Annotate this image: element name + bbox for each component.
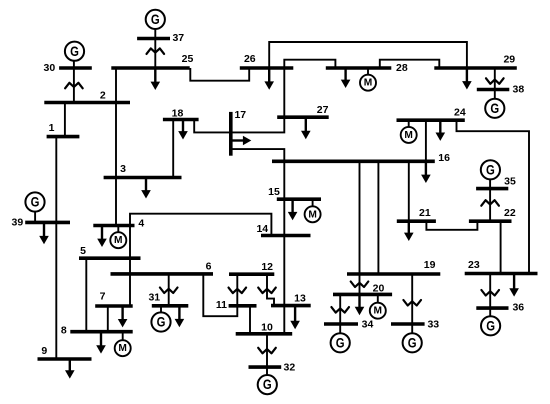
bus 8 bbox=[70, 330, 132, 334]
svg-text:1: 1 bbox=[49, 122, 55, 134]
transformer symbol 23-36 bbox=[481, 290, 499, 296]
svg-text:33: 33 bbox=[427, 318, 439, 330]
svg-text:30: 30 bbox=[44, 62, 56, 74]
load arrow bus 27 bbox=[301, 117, 311, 139]
bus 12 bbox=[229, 272, 274, 276]
bus 29 bbox=[434, 66, 517, 70]
bus 20 bbox=[333, 293, 392, 297]
load arrow bus 39 bbox=[39, 222, 49, 244]
bus 27 bbox=[277, 115, 329, 119]
bus 26 bbox=[240, 66, 293, 70]
load arrow bus 20 bbox=[355, 294, 365, 315]
svg-text:14: 14 bbox=[256, 223, 268, 235]
load arrow bus 13 bbox=[290, 306, 300, 330]
svg-text:G: G bbox=[408, 335, 417, 351]
wire motor 20 stub bbox=[377, 294, 379, 302]
svg-text:13: 13 bbox=[294, 293, 306, 305]
wire line 26-29 top bbox=[269, 42, 467, 68]
bus 24 bbox=[397, 118, 465, 122]
svg-text:36: 36 bbox=[512, 302, 524, 314]
bus 37 bbox=[137, 37, 170, 41]
bus 4 bbox=[93, 224, 134, 228]
svg-text:16: 16 bbox=[438, 152, 450, 164]
svg-text:6: 6 bbox=[206, 261, 212, 273]
generator G at bus 38 bbox=[485, 99, 504, 118]
wire transformer 19-33 with generator stub bbox=[411, 274, 413, 333]
svg-text:G: G bbox=[486, 318, 495, 334]
load arrow bus 8 bbox=[96, 332, 106, 354]
generator G at bus 30 bbox=[65, 42, 84, 61]
svg-text:26: 26 bbox=[244, 53, 256, 65]
svg-text:10: 10 bbox=[261, 321, 273, 333]
wire line 3-18 bbox=[172, 120, 174, 178]
load arrow bus 17 bbox=[231, 136, 252, 146]
wire lines 2-3, 3-4 bbox=[115, 103, 117, 226]
svg-text:11: 11 bbox=[216, 299, 227, 311]
wire motor 28 stub bbox=[367, 68, 369, 75]
bus 6 bbox=[111, 272, 214, 276]
wire lines 6-11, 11-12 transformer bbox=[203, 274, 237, 316]
bus 22 bbox=[469, 219, 512, 223]
load arrow bus 9 bbox=[65, 359, 75, 379]
generator G at bus 34 bbox=[331, 333, 350, 352]
load arrow bus 28 bbox=[341, 68, 351, 88]
svg-text:39: 39 bbox=[12, 216, 24, 228]
wire line 10-11 bbox=[249, 306, 251, 334]
bus 7 bbox=[95, 304, 133, 308]
bus 21 bbox=[397, 219, 436, 223]
bus 3 bbox=[104, 176, 182, 180]
svg-text:28: 28 bbox=[396, 62, 408, 74]
bus 28 bbox=[326, 66, 392, 70]
wire line 24-23 bbox=[457, 120, 530, 273]
transformer symbol 12-13 bbox=[258, 288, 276, 294]
svg-text:G: G bbox=[157, 315, 166, 331]
bus 23 bbox=[465, 272, 538, 276]
wire transformer 37-25 with generator stub bbox=[154, 29, 156, 68]
svg-text:22: 22 bbox=[504, 207, 516, 219]
load arrow bus 7 bbox=[118, 306, 128, 327]
transformer symbol 37-25 bbox=[147, 48, 165, 54]
bus 13 bbox=[271, 304, 311, 308]
bus 33 bbox=[391, 322, 425, 326]
bus 11 bbox=[229, 304, 257, 308]
svg-text:G: G bbox=[336, 335, 345, 351]
bus 17 bbox=[229, 112, 233, 156]
wire generator 39 stub bbox=[34, 212, 36, 223]
generator G at bus 37 bbox=[146, 10, 165, 29]
svg-text:2: 2 bbox=[100, 90, 106, 102]
svg-text:M: M bbox=[114, 235, 123, 246]
wire line 16-24 bbox=[425, 120, 427, 161]
svg-text:G: G bbox=[263, 377, 272, 393]
wire transformer 30-2 with generator stub bbox=[73, 60, 75, 102]
svg-text:9: 9 bbox=[41, 345, 47, 357]
wire line 16-19 left circuit bbox=[359, 161, 361, 274]
motor M at bus 20 bbox=[370, 303, 386, 319]
load arrow bus 16 bbox=[421, 161, 431, 183]
generator G at bus 33 bbox=[403, 333, 422, 352]
wire line 16-21 bbox=[408, 161, 410, 221]
svg-text:12: 12 bbox=[261, 261, 273, 273]
wire transformer 19-20 bbox=[359, 274, 361, 294]
svg-text:37: 37 bbox=[172, 32, 184, 44]
svg-text:G: G bbox=[490, 101, 499, 117]
svg-text:3: 3 bbox=[120, 163, 126, 175]
svg-text:25: 25 bbox=[182, 53, 194, 65]
svg-text:17: 17 bbox=[234, 109, 246, 121]
svg-text:19: 19 bbox=[424, 259, 436, 271]
wire line 28-29 bbox=[380, 60, 440, 68]
bus 2 bbox=[44, 101, 130, 105]
load arrow bus 18 bbox=[178, 120, 188, 140]
svg-text:7: 7 bbox=[100, 291, 106, 303]
wire lines 16-17, 15-16, 14-15, 13-14, 10-13 bbox=[231, 149, 284, 334]
transformer symbol 19-20 bbox=[351, 282, 369, 288]
bus 31 bbox=[152, 304, 189, 308]
svg-text:4: 4 bbox=[138, 218, 144, 230]
svg-text:G: G bbox=[31, 195, 40, 211]
wire transformer 29-38 with generator stub bbox=[494, 68, 496, 99]
bus 10 bbox=[236, 332, 293, 336]
wire motor 4 stub bbox=[117, 226, 119, 233]
transformer symbol 11-12 bbox=[229, 288, 247, 294]
bus 36 bbox=[476, 306, 508, 310]
bus 39 bbox=[25, 221, 70, 225]
bus 19 bbox=[347, 272, 440, 276]
svg-text:31: 31 bbox=[148, 292, 160, 304]
wire transformer 23-36 with generator stub bbox=[489, 274, 491, 317]
svg-text:5: 5 bbox=[80, 245, 86, 257]
svg-text:M: M bbox=[404, 130, 413, 141]
bus 38 bbox=[477, 88, 510, 92]
svg-text:24: 24 bbox=[454, 106, 466, 118]
generator G at bus 31 bbox=[151, 312, 170, 331]
wire transformer 20-34 with generator stub bbox=[339, 294, 341, 333]
transformer symbol 10-32 bbox=[258, 348, 276, 354]
svg-text:23: 23 bbox=[468, 259, 480, 271]
wire line 2-25 bbox=[115, 68, 117, 103]
load arrow bus 25 bbox=[151, 68, 161, 90]
wire motor 24 stub bbox=[408, 120, 410, 127]
motor M at bus 28 bbox=[360, 75, 376, 91]
transformer symbol 29-38 bbox=[486, 78, 504, 84]
wire line 22-23 bbox=[500, 221, 502, 273]
wire motor 8 stub bbox=[122, 332, 124, 341]
bus 14 bbox=[261, 234, 311, 238]
bus 1 bbox=[47, 135, 80, 139]
svg-text:27: 27 bbox=[317, 104, 329, 116]
wire generator 31 stub bbox=[160, 306, 162, 313]
svg-text:15: 15 bbox=[268, 186, 280, 198]
generator G at bus 39 bbox=[25, 192, 44, 211]
generator G at bus 35 bbox=[481, 160, 500, 179]
load arrow bus 3 bbox=[141, 178, 151, 199]
bus 16 bbox=[272, 160, 435, 164]
bus 30 bbox=[59, 66, 92, 70]
svg-text:M: M bbox=[118, 343, 127, 354]
wire transformer 22-35 with generator stub bbox=[489, 179, 491, 221]
generator G at bus 36 bbox=[481, 316, 500, 335]
bus 5 bbox=[79, 256, 141, 260]
load arrow bus 4 bbox=[97, 226, 107, 248]
wire transformer 10-32 with generator stub bbox=[266, 334, 268, 376]
wire transformer 12-13 bbox=[267, 274, 274, 305]
wire motor 15 stub bbox=[312, 199, 314, 206]
bus 15 bbox=[277, 197, 321, 201]
svg-text:G: G bbox=[486, 162, 495, 178]
bus 18 bbox=[163, 118, 199, 122]
svg-text:32: 32 bbox=[284, 361, 296, 373]
transformer symbol 19-33 bbox=[403, 300, 421, 306]
svg-text:38: 38 bbox=[513, 83, 525, 95]
wire lines 18-17, 17-27, 26-27, 26-28 bbox=[194, 60, 335, 133]
wire line 5-8 bbox=[85, 258, 87, 332]
wire lines 1-39, 39-9 bbox=[55, 137, 57, 359]
wire transformer 6-31 bbox=[168, 274, 170, 306]
bus 35 bbox=[476, 187, 508, 191]
svg-text:M: M bbox=[364, 78, 373, 89]
motor M at bus 15 bbox=[305, 206, 321, 222]
load arrow bus 23 bbox=[509, 274, 519, 297]
svg-text:G: G bbox=[151, 12, 160, 28]
load arrow bus 15 bbox=[288, 199, 298, 220]
wire line 1-2 bbox=[64, 103, 66, 137]
generator G at bus 32 bbox=[258, 375, 277, 394]
svg-text:G: G bbox=[70, 44, 79, 60]
motor M at bus 24 bbox=[401, 127, 417, 143]
load arrow bus 31 bbox=[175, 306, 185, 328]
bus 32 bbox=[249, 365, 282, 369]
transformer symbol 20-34 bbox=[331, 307, 349, 313]
bus 9 bbox=[38, 357, 92, 361]
load arrow bus 29 bbox=[462, 68, 472, 90]
svg-text:8: 8 bbox=[61, 324, 67, 336]
motor M at bus 4 bbox=[110, 232, 126, 248]
svg-text:29: 29 bbox=[503, 54, 515, 66]
svg-text:21: 21 bbox=[419, 207, 431, 219]
transformer symbol 6-31 bbox=[160, 288, 178, 294]
load arrow bus 21 bbox=[404, 221, 414, 241]
wire lines 4-14, 4-5, 5-6, 6-7 bbox=[130, 214, 271, 306]
svg-text:18: 18 bbox=[172, 108, 184, 120]
wire line 7-8 bbox=[107, 306, 109, 332]
svg-text:M: M bbox=[308, 209, 317, 220]
bus 25 bbox=[111, 66, 189, 70]
motor M at bus 8 bbox=[115, 340, 131, 356]
svg-text:34: 34 bbox=[362, 318, 374, 330]
transformer symbol 30-2 bbox=[65, 83, 83, 89]
load arrow bus 24 bbox=[436, 120, 446, 141]
load arrow bus 26 bbox=[264, 68, 274, 90]
wire line 16-19 right circuit bbox=[377, 161, 379, 274]
svg-text:35: 35 bbox=[504, 176, 516, 188]
svg-text:20: 20 bbox=[373, 283, 385, 295]
wire line 21-22 bbox=[426, 221, 477, 230]
transformer symbol 22-35 bbox=[481, 200, 499, 206]
bus 34 bbox=[324, 322, 358, 326]
wire line 25-26 bbox=[190, 68, 249, 81]
svg-text:M: M bbox=[374, 306, 383, 317]
